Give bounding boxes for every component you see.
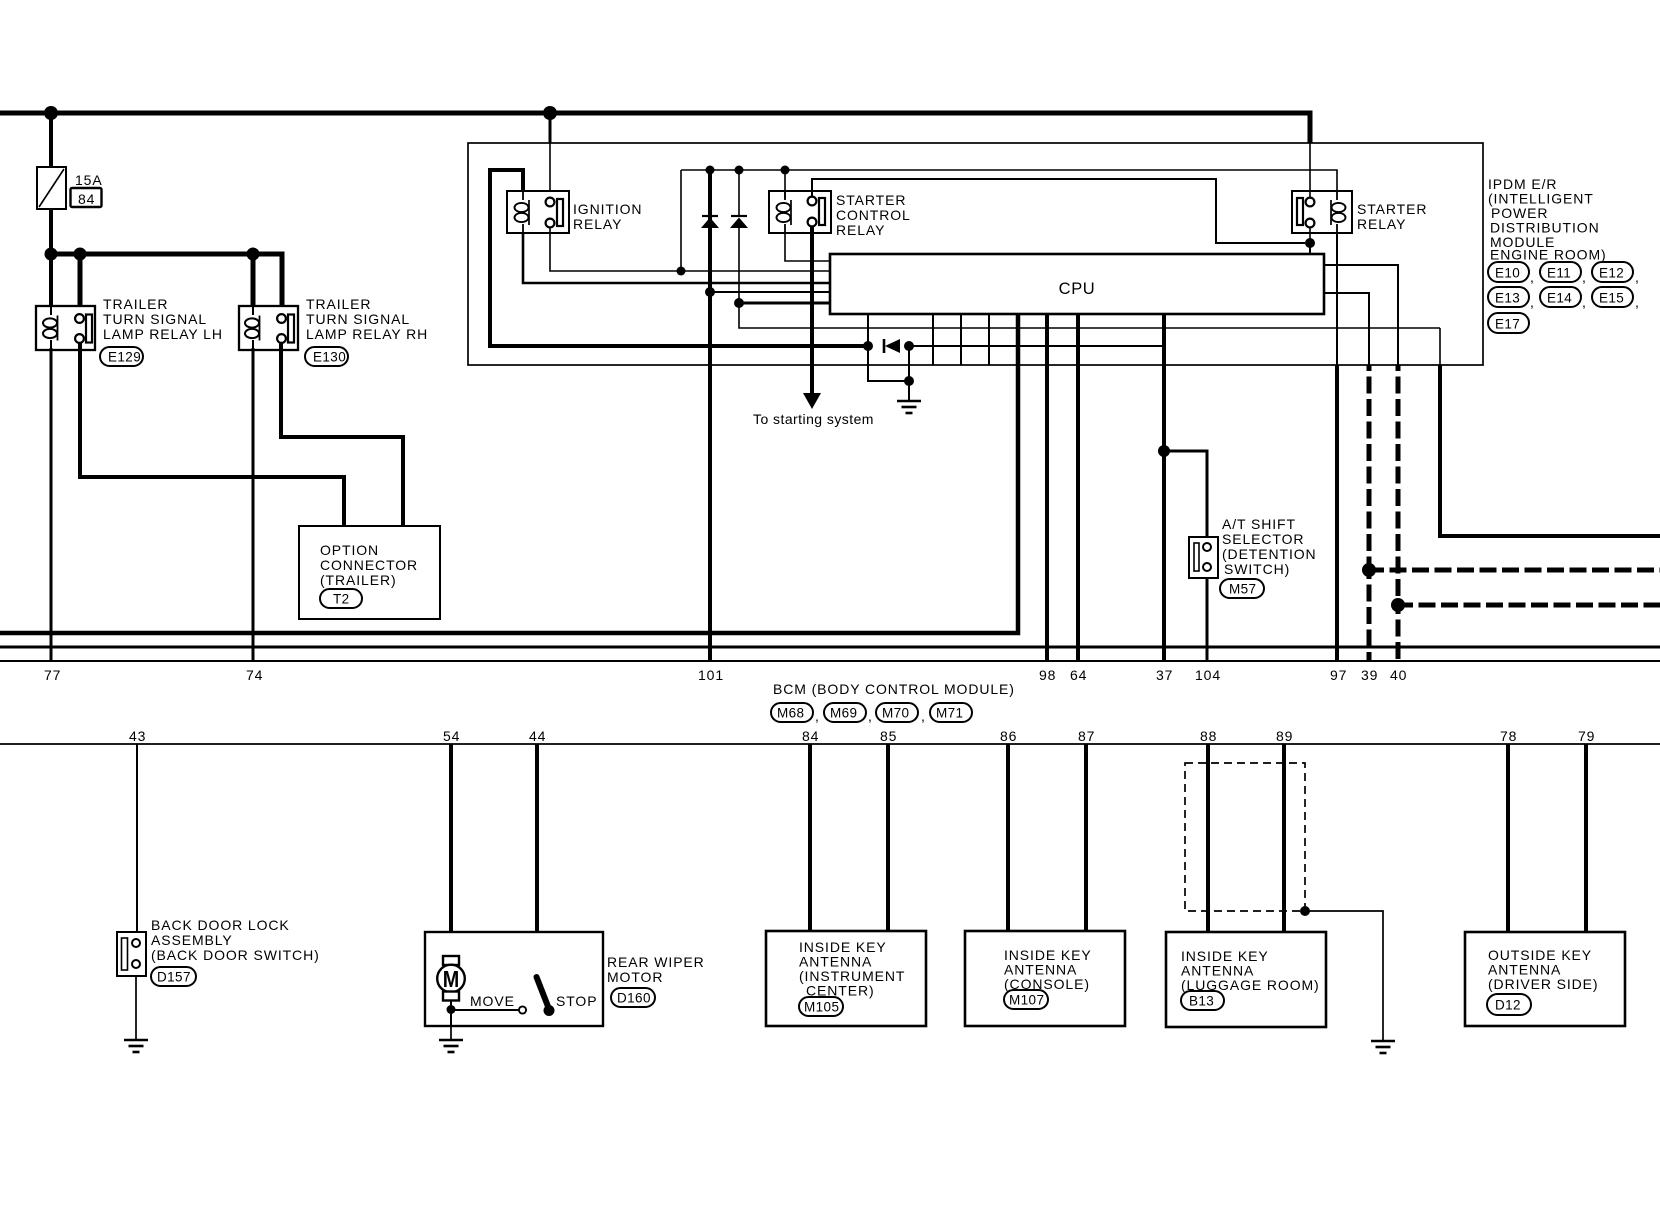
wire 54 [449,744,453,957]
svg-text:CONTROL: CONTROL [836,207,911,223]
wire 97 starter relay coil return [1336,233,1338,661]
label pin 43 [129,728,146,744]
box inside key antenna instrument center [766,931,926,1026]
node bus junction at fuse [44,106,58,120]
connector M57 [1220,579,1264,598]
label relay RH [306,296,428,342]
label pin 101 [698,667,724,683]
label starter control relay [836,192,911,238]
ground symbol back door [124,1040,148,1052]
wire shielded horizontal lower [1398,603,1660,608]
wire starter relay contact bottom [1309,227,1311,243]
svg-text:,: , [868,708,873,724]
wire LH coil drop [49,254,53,310]
wire ground rail segment thin [909,345,1164,347]
svg-text:MOTOR: MOTOR [607,969,663,985]
label pin 37 [1156,667,1173,683]
wire RH contact output to option connector [281,343,403,526]
svg-text:85: 85 [880,728,897,744]
wire CPU ground leg [867,314,869,346]
wire top power bus [0,113,1310,143]
svg-text:M69: M69 [830,706,857,721]
node diode D3 anode [863,341,873,351]
node ground junction [904,376,914,386]
connector D12 [1487,994,1531,1015]
label stop [556,993,597,1009]
wire CPU to 40 [1324,265,1398,365]
wire LH contact output to option connector [80,343,344,526]
wire 79 [1584,744,1588,932]
svg-text:104: 104 [1195,667,1221,683]
wire bus line B [0,646,1660,649]
svg-text:STARTER: STARTER [1357,201,1427,217]
connector B13 [1181,991,1224,1010]
svg-text:,: , [1582,294,1587,310]
label to starting system [753,411,874,427]
svg-text:43: 43 [129,728,146,744]
node shield ground junction [1300,906,1310,916]
diode D1 [701,216,719,228]
svg-text:RELAY: RELAY [1357,216,1406,232]
svg-text:BCM (BODY CONTROL MODULE): BCM (BODY CONTROL MODULE) [773,681,1015,697]
wire diode2 to CPU thick [739,302,831,305]
ground symbol shield [1371,1041,1395,1053]
svg-text:M: M [443,966,460,992]
ground symbol IPDM [897,401,921,413]
wire bus drop to ignition relay [549,113,552,198]
label move [470,993,515,1009]
motor M [437,956,465,1001]
svg-text:84: 84 [78,191,95,207]
node diode2 top [735,166,744,175]
label pin 97 [1330,667,1347,683]
svg-text:40: 40 [1390,667,1407,683]
wire 77 LH coil to BCM [50,348,53,661]
svg-text:(BACK DOOR SWITCH): (BACK DOOR SWITCH) [151,947,320,963]
svg-text:E13: E13 [1495,291,1520,306]
connector M71 [921,703,972,724]
wire 89 [1282,744,1286,932]
label BCM [773,681,1015,697]
svg-text:RELAY: RELAY [573,216,622,232]
svg-text:To starting system: To starting system [753,411,874,427]
node starter control coil top [781,166,790,175]
diode D3 [884,339,900,353]
wire diode2 down and right [739,228,1440,328]
svg-text:,: , [1635,269,1640,285]
connector M68 [771,703,813,722]
wire move contact [451,1006,526,1013]
svg-text:101: 101 [698,667,724,683]
svg-text:E10: E10 [1495,266,1520,281]
wire 74 RH coil to BCM [252,348,255,661]
svg-text:84: 84 [802,728,819,744]
svg-text:D160: D160 [617,991,651,1006]
ground symbol motor [439,1040,463,1052]
svg-text:78: 78 [1500,728,1517,744]
svg-text:E17: E17 [1495,317,1520,332]
node junction fuse column [45,248,58,261]
label pin 88 [1200,728,1217,744]
box option connector (trailer) T2 [299,526,440,619]
label relay LH [103,296,223,342]
wire 98 [1045,314,1049,661]
svg-text:D157: D157 [157,970,191,985]
svg-text:39: 39 [1361,667,1378,683]
wire motor to move contact [450,1000,452,1026]
node starter relay feed [1305,238,1315,248]
svg-text:CPU: CPU [1059,280,1096,298]
wire ignition contact output [550,227,831,271]
svg-text:M71: M71 [936,706,963,721]
label back door lock [151,917,320,963]
label IPDM ER block [1488,176,1607,263]
svg-text:A/T SHIFT: A/T SHIFT [1222,516,1296,532]
svg-text:REAR WIPER: REAR WIPER [607,954,705,970]
node diode2 CPU branch [734,298,744,308]
connector M105 [799,997,843,1016]
svg-text:M105: M105 [804,1000,839,1015]
wire comb c [988,314,990,365]
svg-text:88: 88 [1200,728,1217,744]
wire 84 [808,744,812,931]
svg-text:(TRAILER): (TRAILER) [320,572,397,588]
wire CPU to 39 [1324,293,1369,365]
wire fuse to relay bus [49,209,53,254]
svg-text:89: 89 [1276,728,1293,744]
wire starter control coil return [785,233,831,261]
label pin 98 [1039,667,1056,683]
switch back door D157 [117,932,146,976]
relay ignition [507,191,569,233]
connector M69 [815,703,866,724]
wire 87 [1084,744,1088,931]
switch M57 detention [1189,537,1218,578]
svg-text:E15: E15 [1599,291,1624,306]
node switch branch [1158,445,1170,457]
svg-text:E11: E11 [1547,266,1571,281]
label pin 86 [1000,728,1017,744]
label pin 85 [880,728,897,744]
fuse 15A 84 [37,167,103,209]
svg-text:LAMP RELAY LH: LAMP RELAY LH [103,326,223,342]
label pin 78 [1500,728,1517,744]
label pin 79 [1578,728,1595,744]
wire comb b [960,314,962,365]
wire to ground [908,346,910,401]
svg-text:(DETENTION: (DETENTION [1222,546,1317,562]
svg-text:,: , [1530,294,1535,310]
box inside key antenna console [965,931,1125,1026]
svg-text:ENGINE ROOM): ENGINE ROOM) [1490,247,1607,263]
connector E10 [1488,262,1529,282]
connector E12 [1582,262,1640,285]
label pin 87 [1078,728,1095,744]
svg-text:79: 79 [1578,728,1595,744]
svg-text:SWITCH): SWITCH) [1224,561,1290,577]
node diode1 CPU branch [705,287,715,297]
wire comb a [932,314,934,365]
wire shielded horizontal upper [1369,568,1660,573]
svg-text:,: , [921,708,926,724]
svg-text:STARTER: STARTER [836,192,906,208]
wire 104 [1206,578,1209,661]
svg-text:B13: B13 [1189,994,1214,1009]
connector E15 [1582,287,1640,310]
diode D2 [730,170,748,228]
svg-text:E12: E12 [1599,266,1624,281]
svg-text:OPTION: OPTION [320,542,379,558]
svg-text:86: 86 [1000,728,1017,744]
svg-text:15A: 15A [75,172,103,188]
label pin 44 [529,728,546,744]
wire 64 [1076,314,1080,661]
label pin 84 [802,728,819,744]
relay E129 trailer turn signal lamp relay LH [36,306,95,350]
svg-text:E129: E129 [108,350,141,365]
relay starter control [769,191,831,233]
svg-text:,: , [1635,294,1640,310]
shield box dashed [1185,763,1305,911]
wire relay feed bus [51,254,282,310]
label pin 39 [1361,667,1378,683]
wire shield to ground [1305,911,1383,1041]
label AT shift selector [1222,516,1317,577]
node shield junction 40 [1391,598,1405,612]
label pin 54 [443,728,460,744]
relay starter [1292,191,1352,233]
box IPDM E/R outline [468,143,1483,365]
wire ground rail segment thick [488,344,868,348]
svg-text:SELECTOR: SELECTOR [1222,531,1304,547]
label starter relay [1357,201,1427,232]
svg-text:64: 64 [1070,667,1087,683]
svg-text:E130: E130 [313,350,346,365]
node diode D3 cathode [904,341,914,351]
svg-text:LAMP RELAY RH: LAMP RELAY RH [306,326,428,342]
wire ground loop [868,346,909,381]
connector D157 [151,967,196,986]
box outside key antenna driver side [1465,932,1625,1026]
wire 88 [1206,744,1210,932]
wire starter control contact to starter relay [812,179,1305,243]
wire 78 [1506,744,1510,932]
svg-text:CONNECTOR: CONNECTOR [320,557,418,573]
svg-text:TRAILER: TRAILER [306,296,371,312]
node shield junction 39 [1362,563,1376,577]
wire bus to fuse [49,113,53,167]
svg-text:BACK DOOR LOCK: BACK DOOR LOCK [151,917,290,933]
wire branch to detention switch [1164,451,1207,537]
connector E130 [305,347,348,366]
box inside key antenna luggage room [1166,932,1326,1027]
node junction LH contact feed [74,248,87,261]
node move junction [447,1005,456,1014]
svg-text:(DRIVER SIDE): (DRIVER SIDE) [1488,976,1599,992]
connector M107 [1004,990,1048,1009]
connector E17 [1488,313,1529,333]
wire right exit mid [1440,328,1660,536]
wire shielded 40 [1396,365,1401,661]
connector E14 [1530,287,1581,310]
svg-text:,: , [1530,269,1535,285]
wire 85 [886,744,890,931]
wire shielded 39 [1367,365,1372,661]
wire inner thick feed loop [490,170,523,346]
svg-text:M107: M107 [1009,993,1044,1008]
wire LH contact drop [78,254,83,310]
label pin 64 [1070,667,1087,683]
node bus junction at ignition relay feed [543,106,557,120]
label ignition relay [573,201,642,232]
connector E129 [100,347,143,366]
wire motor ground [450,1026,452,1040]
wire starter control coil top [784,170,786,198]
wire node to CPU top [1309,243,1311,256]
svg-text:,: , [815,708,820,724]
wire diode rail [681,170,1337,192]
wire thick return rail [0,314,1018,633]
svg-text:D12: D12 [1495,998,1521,1013]
label pin 77 [44,667,61,683]
box CPU [830,254,1324,314]
svg-text:RELAY: RELAY [836,222,885,238]
wire BCM lower edge [0,743,1660,745]
label pin 40 [1390,667,1407,683]
wire 86 [1006,744,1010,931]
wire 37 [1162,314,1166,661]
connector D160 [611,988,655,1007]
connector E13 [1488,287,1529,307]
svg-text:STOP: STOP [556,993,597,1009]
svg-text:97: 97 [1330,667,1347,683]
node diode1 top [706,166,715,175]
svg-text:74: 74 [246,667,263,683]
svg-text:M57: M57 [1229,582,1256,597]
svg-text:TURN SIGNAL: TURN SIGNAL [306,311,410,327]
svg-text:E14: E14 [1547,291,1572,306]
node junction RH coil feed [247,248,260,261]
svg-text:M68: M68 [777,706,804,721]
node ignition output junction [677,267,686,276]
svg-text:77: 77 [44,667,61,683]
wire diode1 to CPU [710,291,831,293]
svg-text:TRAILER: TRAILER [103,296,168,312]
wire link to diode rail [680,170,682,271]
label rear wiper motor [607,954,705,985]
connector M70 [868,703,918,724]
label pin 89 [1276,728,1293,744]
svg-text:ASSEMBLY: ASSEMBLY [151,932,233,948]
wire starter relay contact top [1309,143,1311,198]
connector E11 [1530,262,1581,285]
label pin 104 [1195,667,1221,683]
relay E130 trailer turn signal lamp relay RH [239,306,298,350]
svg-text:IGNITION: IGNITION [573,201,642,217]
svg-text:M70: M70 [882,706,909,721]
wire to starting system [803,227,821,409]
svg-text:TURN SIGNAL: TURN SIGNAL [103,311,207,327]
label pin 74 [246,667,263,683]
svg-text:54: 54 [443,728,460,744]
svg-text:87: 87 [1078,728,1095,744]
switch arm stop [537,977,555,1016]
wire RH coil drop [251,254,256,310]
svg-text:44: 44 [529,728,546,744]
svg-text:98: 98 [1039,667,1056,683]
svg-text:T2: T2 [333,592,350,607]
wire 43 [136,744,138,932]
svg-text:37: 37 [1156,667,1173,683]
svg-text:MOVE: MOVE [470,993,515,1009]
wire back door to ground [135,976,137,1040]
svg-text:,: , [1582,269,1587,285]
wire 44 [535,744,539,973]
wire ignition coil return [523,233,831,283]
wire 101 from diode D1 [708,170,712,661]
box rear wiper motor D160 [425,932,603,1026]
wire bus line C [0,660,1660,662]
